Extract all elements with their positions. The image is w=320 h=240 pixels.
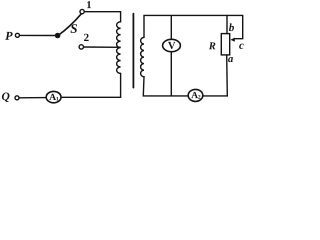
wire contact 2 to coil tap (84, 46, 121, 48)
label 2 (84, 34, 89, 41)
terminal P (15, 33, 19, 37)
primary coil bottom lead to ammeter A1 (61, 73, 121, 97)
secondary top lead, top rail and right rail to slider (144, 15, 243, 38)
label R (209, 42, 216, 49)
primary coil winding (117, 22, 121, 74)
wire contact 1 to primary coil top (85, 12, 121, 22)
resistor top lead b (226, 16, 228, 34)
label A1_A (49, 94, 56, 100)
ammeter A2 (188, 89, 203, 101)
wire P to switch pivot (20, 34, 56, 36)
terminal Q (15, 96, 19, 100)
label P (5, 32, 12, 40)
secondary coil winding (141, 37, 144, 76)
label A2_2 (198, 95, 200, 99)
label A2_A (191, 92, 198, 98)
contact 1 (80, 9, 84, 13)
label A1_1 (56, 97, 58, 101)
switch pivot junction (56, 33, 60, 37)
label b (229, 23, 234, 31)
rheostat slider arrowhead c (230, 38, 234, 42)
label S (71, 24, 77, 33)
ammeter A1 (46, 91, 61, 102)
label V (168, 42, 175, 49)
wire ammeter A1 to terminal Q (19, 97, 46, 99)
voltmeter branch wire (170, 16, 172, 96)
label 1 (87, 1, 91, 8)
transformer core bar (132, 14, 134, 88)
label a (228, 57, 233, 62)
label c (239, 44, 244, 49)
switch arm S (58, 14, 81, 36)
resistor R body (221, 34, 229, 55)
secondary bottom lead, bottom rail, lead up to resistor terminal a (143, 55, 227, 96)
contact 2 (79, 45, 83, 49)
label Q (2, 92, 10, 101)
voltmeter V (163, 39, 181, 51)
